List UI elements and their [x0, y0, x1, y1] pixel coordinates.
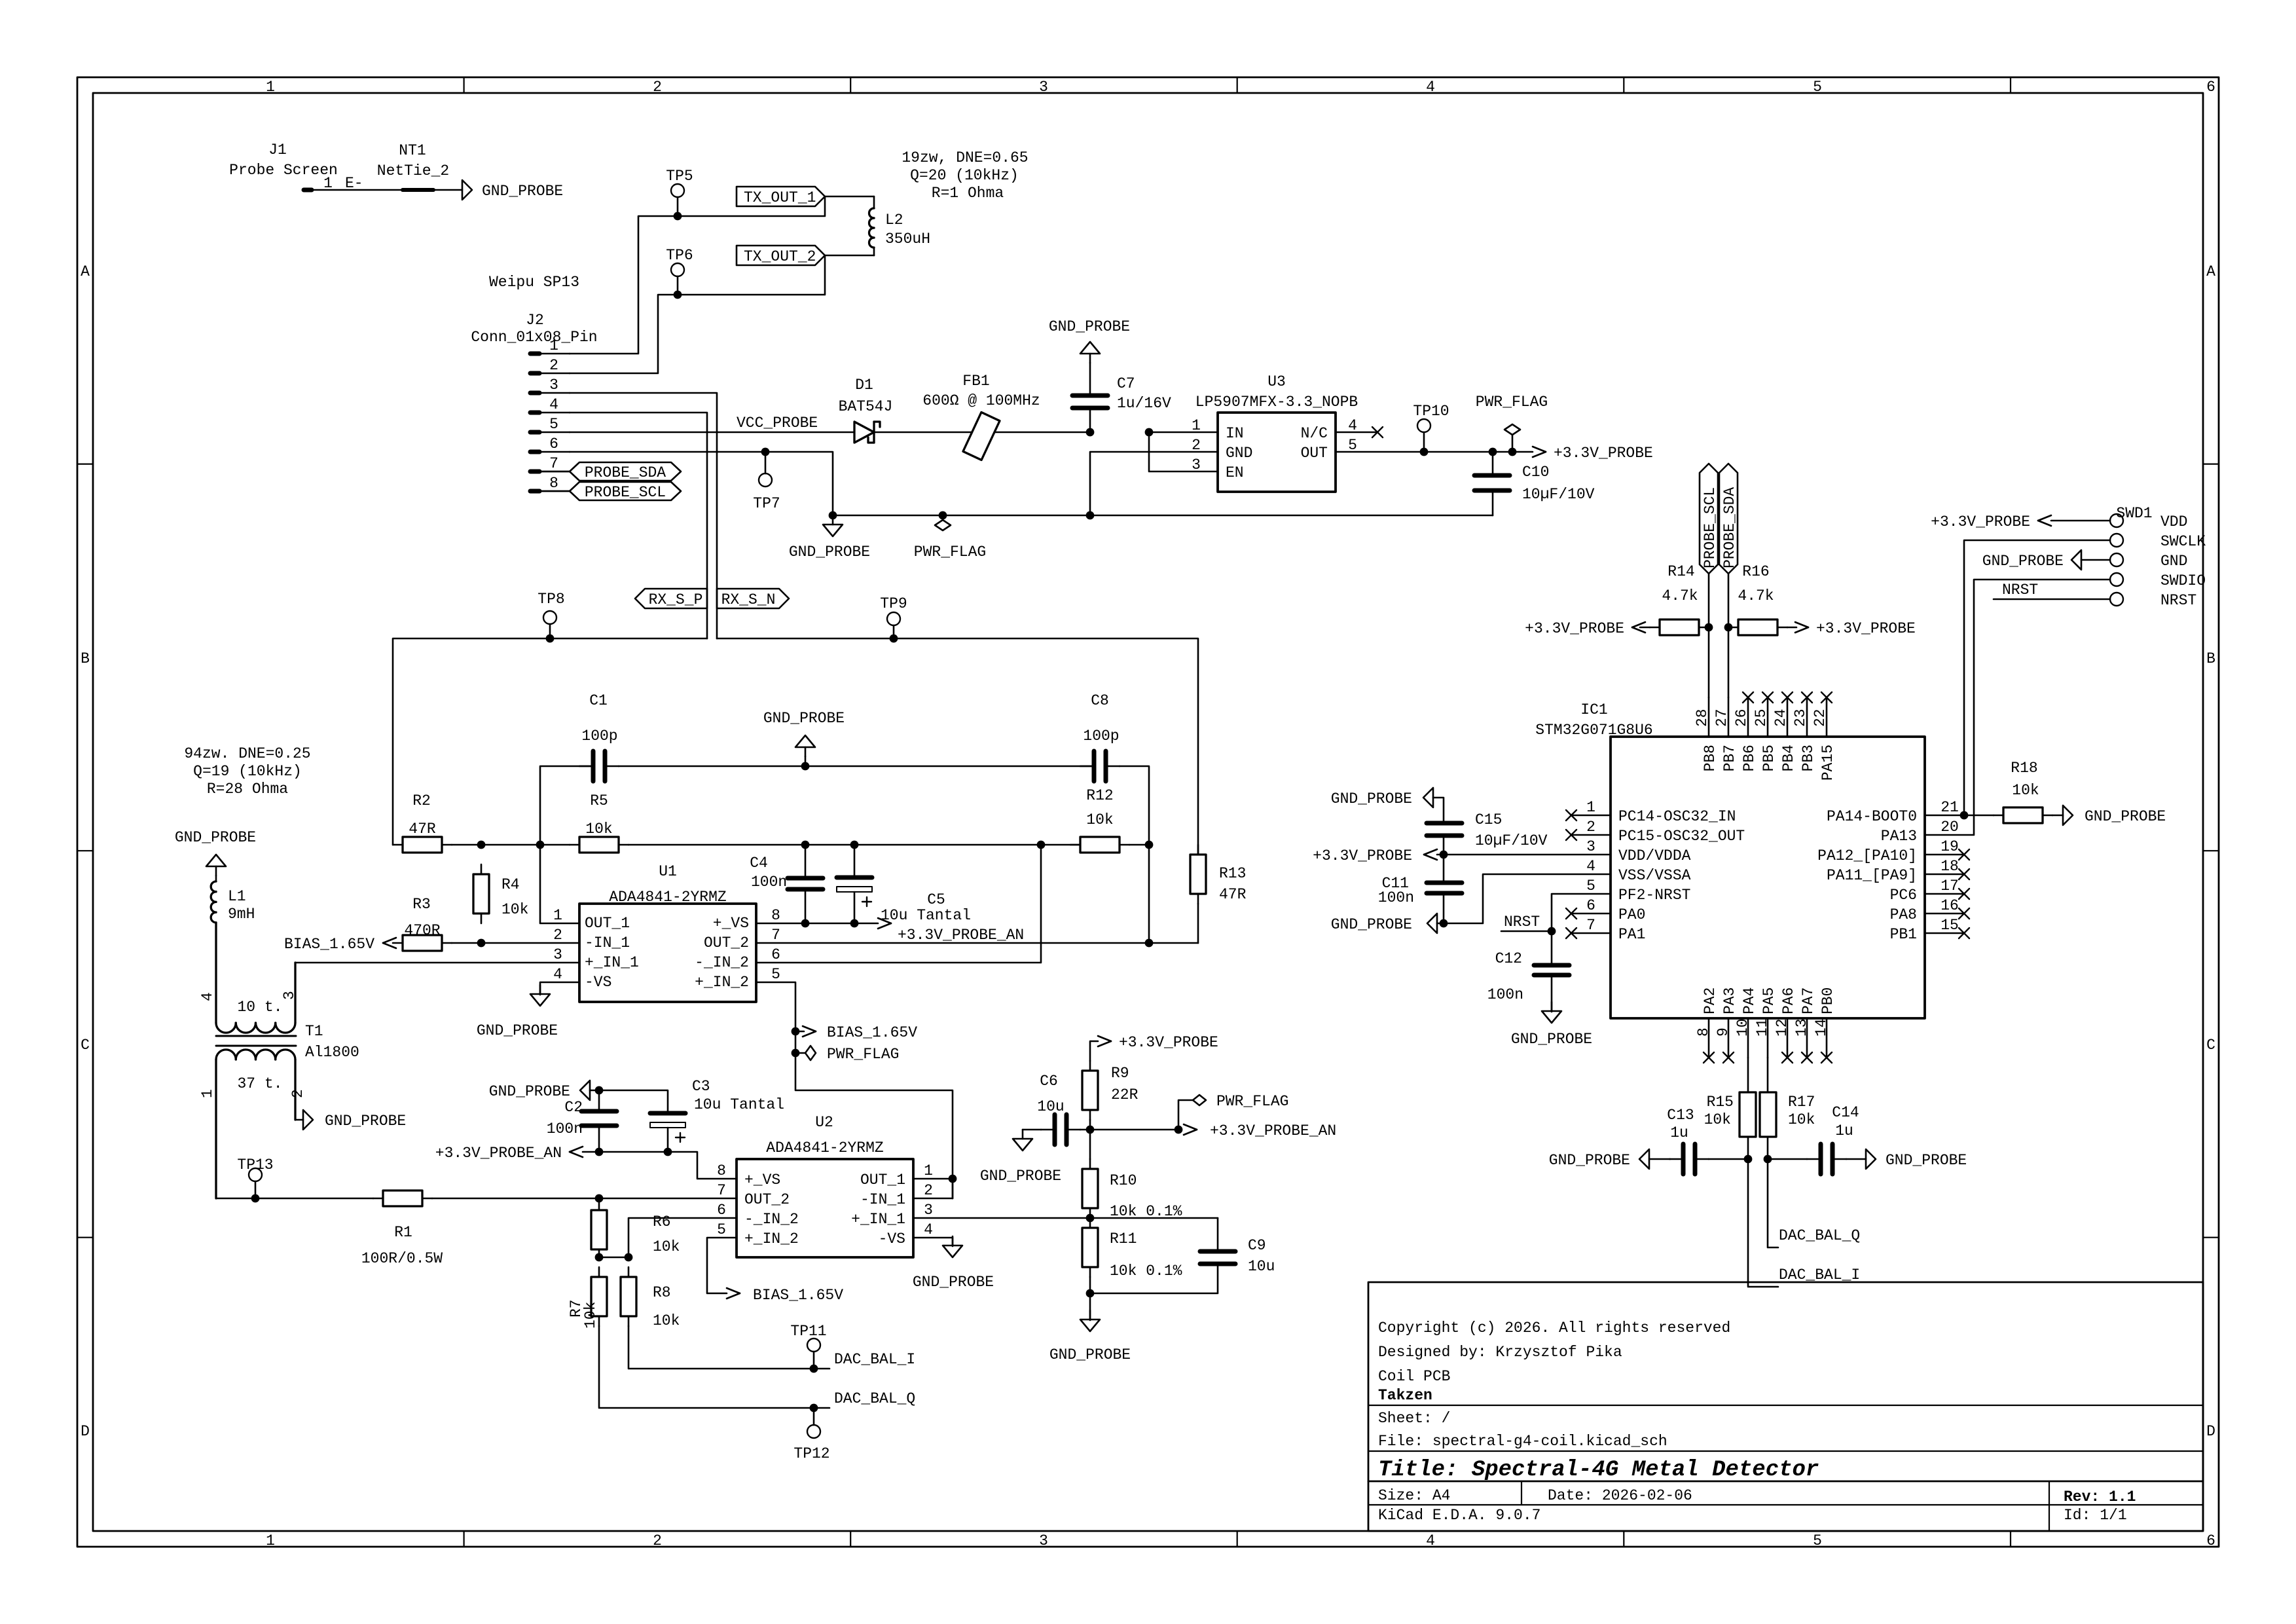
svg-text:1: 1 — [1192, 417, 1201, 434]
svg-text:Title: Spectral-4G Metal Detec: Title: Spectral-4G Metal Detector — [1378, 1458, 1819, 1483]
svg-text:10k: 10k — [1788, 1111, 1815, 1128]
svg-text:100n: 100n — [1487, 986, 1523, 1003]
wire R17 to DAC_BAL_Q — [1768, 1159, 1778, 1247]
svg-text:3: 3 — [924, 1202, 933, 1219]
wire T1 pin1 to R1 — [216, 1198, 373, 1200]
wire GND rail — [833, 515, 1493, 517]
global label RX_S_P — [635, 589, 707, 608]
wire R15 to DAC_BAL_I — [1748, 1159, 1778, 1287]
wire VDD pin3 — [1437, 854, 1611, 856]
ferrite bead FB1 — [922, 373, 1040, 460]
svg-text:6: 6 — [2206, 1532, 2215, 1549]
global label PROBE_SCL — [539, 482, 681, 501]
junction R10 R11 +IN — [1086, 1214, 1095, 1223]
title block text lines — [1378, 1319, 1730, 1450]
svg-text:47R: 47R — [1219, 886, 1247, 903]
svg-text:100n: 100n — [547, 1120, 583, 1137]
power symbol +3.3V_PROBE right of R16 — [1787, 620, 1916, 637]
capacitor C1 100p — [540, 692, 619, 845]
svg-text:R10: R10 — [1110, 1172, 1137, 1189]
svg-text:R12: R12 — [1086, 787, 1113, 804]
svg-text:NRST: NRST — [2160, 592, 2196, 609]
svg-text:R13: R13 — [1219, 865, 1246, 882]
resistor R6 10k — [591, 1200, 680, 1259]
capacitor C8 100p — [1080, 692, 1153, 947]
wire U1 pin3 +_IN_1 from T1 — [295, 962, 579, 964]
svg-text:DAC_BAL_Q: DAC_BAL_Q — [834, 1390, 915, 1407]
no-connect X right pins — [1925, 849, 1969, 938]
svg-text:22R: 22R — [1111, 1086, 1139, 1103]
svg-text:OUT_2: OUT_2 — [704, 934, 749, 951]
svg-text:+3.3V_PROBE_AN: +3.3V_PROBE_AN — [435, 1145, 562, 1162]
svg-text:16: 16 — [1941, 897, 1959, 914]
svg-text:15: 15 — [1941, 917, 1959, 934]
svg-text:PA6: PA6 — [1780, 987, 1797, 1014]
power symbol GND_PROBE rail — [789, 515, 870, 561]
svg-text:L1: L1 — [228, 888, 246, 905]
svg-text:5: 5 — [1813, 1532, 1822, 1549]
resistor R11 10k 0.1% — [1082, 1218, 1182, 1280]
svg-text:+3.3V_PROBE: +3.3V_PROBE — [1119, 1034, 1218, 1051]
svg-text:GND: GND — [2160, 553, 2187, 570]
svg-text:PA14-BOOT0: PA14-BOOT0 — [1827, 808, 1917, 825]
svg-text:100n: 100n — [1378, 889, 1414, 906]
wire U1 pin1 OUT_1 — [540, 845, 579, 923]
svg-text:PA15: PA15 — [1819, 745, 1836, 781]
svg-text:-VS: -VS — [879, 1230, 905, 1247]
svg-text:5: 5 — [717, 1221, 726, 1238]
svg-text:R6: R6 — [653, 1213, 671, 1230]
wire PA13 to SWDIO — [1925, 580, 2110, 835]
wire R8 to DAC_BAL_I — [629, 1326, 829, 1369]
svg-text:Date: 2026-02-06: Date: 2026-02-06 — [1548, 1487, 1692, 1504]
global label GND_PROBE above C15 — [1331, 788, 1444, 823]
svg-text:10k: 10k — [1704, 1111, 1731, 1128]
svg-text:PWR_FLAG: PWR_FLAG — [1216, 1093, 1288, 1110]
svg-text:BIAS_1.65V: BIAS_1.65V — [827, 1024, 917, 1041]
svg-text:10µF/10V: 10µF/10V — [1522, 486, 1595, 503]
svg-text:6: 6 — [549, 435, 558, 452]
junction EN branch — [1145, 428, 1154, 437]
power symbol +3.3V_PROBE_AN left arrow — [435, 1145, 583, 1162]
svg-text:10 t.: 10 t. — [237, 999, 282, 1016]
svg-text:DAC_BAL_I: DAC_BAL_I — [1779, 1266, 1860, 1283]
resistor R12 10k — [1070, 787, 1149, 853]
svg-text:C3: C3 — [692, 1078, 710, 1095]
title block bottom rows — [1378, 1487, 2136, 1524]
power symbol +3.3V_PROBE_AN arrow — [1184, 1122, 1336, 1139]
inductor L1 9mH — [211, 881, 255, 1019]
svg-text:1: 1 — [266, 1532, 275, 1549]
power symbol +3.3V_PROBE_AN right of C5 — [878, 918, 1024, 944]
svg-text:PF2-NRST: PF2-NRST — [1618, 887, 1690, 904]
svg-text:Id: 1/1: Id: 1/1 — [2064, 1507, 2127, 1524]
svg-text:PROBE_SDA: PROBE_SDA — [1721, 487, 1738, 568]
svg-text:TP12: TP12 — [793, 1445, 829, 1462]
power symbol GND_PROBE left of C6 — [980, 1130, 1061, 1185]
svg-text:+_IN_2: +_IN_2 — [744, 1230, 799, 1247]
svg-text:GND_PROBE: GND_PROBE — [1049, 1346, 1131, 1363]
svg-text:17: 17 — [1941, 877, 1959, 895]
svg-text:GND_PROBE: GND_PROBE — [489, 1083, 570, 1100]
svg-text:GND_PROBE: GND_PROBE — [2085, 808, 2166, 825]
svg-text:D: D — [2206, 1423, 2215, 1440]
svg-text:PB1: PB1 — [1890, 926, 1917, 943]
svg-text:24: 24 — [1772, 709, 1789, 727]
resistor R5 10k — [570, 792, 629, 853]
svg-text:GND_PROBE: GND_PROBE — [175, 829, 256, 846]
svg-text:+3.3V_PROBE: +3.3V_PROBE — [1313, 847, 1412, 864]
svg-text:5: 5 — [1813, 79, 1822, 96]
IC1 top pin names — [1702, 745, 1836, 781]
net label DAC_BAL_Q — [834, 1390, 915, 1407]
global label BIAS_1.65V at R3 — [284, 936, 396, 953]
svg-text:25: 25 — [1753, 709, 1770, 727]
svg-text:D1: D1 — [855, 377, 873, 394]
svg-text:C: C — [2206, 1037, 2215, 1054]
no-connect X bottom pins — [1704, 1052, 1832, 1063]
resistor R4 10k — [473, 864, 528, 923]
power symbol GND_PROBE below R11 — [1049, 1293, 1131, 1363]
svg-text:PA4: PA4 — [1741, 987, 1758, 1014]
IC1 top pins and numbers — [1694, 697, 1829, 737]
svg-text:3: 3 — [1039, 79, 1048, 96]
connector SWD1 — [2110, 505, 2206, 609]
regulator U3 LP5907MFX-3.3_NOPB — [1192, 373, 1358, 492]
resistor R7 10k — [568, 1267, 607, 1329]
svg-text:DAC_BAL_I: DAC_BAL_I — [834, 1351, 915, 1368]
svg-text:+3.3V_PROBE_AN: +3.3V_PROBE_AN — [898, 927, 1024, 944]
wire C13 to R15 R17 — [1709, 1155, 1807, 1164]
svg-text:PA13: PA13 — [1881, 828, 1917, 845]
svg-text:TP11: TP11 — [790, 1323, 826, 1340]
svg-text:GND_PROBE: GND_PROBE — [477, 1022, 558, 1039]
wire VSS pin4 — [1444, 874, 1611, 923]
svg-text:9: 9 — [1715, 1027, 1732, 1037]
svg-text:5: 5 — [549, 416, 558, 433]
op-amp U1 ADA4841-2YRMZ — [553, 863, 780, 1002]
svg-text:TP13: TP13 — [237, 1156, 273, 1173]
svg-text:10k: 10k — [501, 901, 528, 918]
svg-text:+3.3V_PROBE: +3.3V_PROBE — [1931, 513, 2030, 530]
svg-text:100n: 100n — [751, 874, 787, 891]
svg-text:VDD: VDD — [2160, 513, 2187, 530]
svg-text:13: 13 — [1793, 1018, 1810, 1037]
svg-text:R=1 Ohma: R=1 Ohma — [932, 185, 1004, 202]
net label NRST at SWD — [1994, 581, 2110, 599]
frame row labels A-D right — [2206, 263, 2215, 1440]
svg-text:IC1: IC1 — [1580, 701, 1607, 718]
capacitor C7 1u/16V — [1072, 363, 1171, 432]
svg-text:PB6: PB6 — [1741, 745, 1758, 771]
svg-text:RX_S_P: RX_S_P — [649, 591, 703, 608]
svg-text:PA11_[PA9]: PA11_[PA9] — [1827, 867, 1917, 884]
wire J2 pin5 VCC_PROBE — [570, 432, 854, 434]
svg-text:PA1: PA1 — [1618, 926, 1645, 943]
power flag PWR_FLAG near R9 — [1178, 1093, 1288, 1130]
svg-text:100R/0.5W: 100R/0.5W — [361, 1250, 443, 1267]
svg-text:4.7k: 4.7k — [1738, 587, 1774, 604]
svg-text:-_IN_2: -_IN_2 — [695, 954, 749, 971]
IC1 right pin names — [1817, 808, 1917, 943]
svg-text:PA0: PA0 — [1618, 906, 1645, 923]
svg-text:1: 1 — [924, 1162, 933, 1179]
svg-text:+_IN_1: +_IN_1 — [851, 1211, 905, 1228]
wire U1 pin8 +VS rail — [756, 923, 878, 925]
svg-text:-IN_1: -IN_1 — [860, 1191, 905, 1208]
svg-text:100p: 100p — [1083, 728, 1119, 745]
svg-text:IN: IN — [1226, 425, 1244, 442]
svg-text:7: 7 — [1586, 917, 1595, 934]
wire R5 to R12 — [629, 844, 1080, 846]
svg-text:+_IN_1: +_IN_1 — [585, 954, 639, 971]
svg-text:OUT_1: OUT_1 — [860, 1172, 905, 1189]
svg-text:19: 19 — [1941, 838, 1959, 855]
resistor R14 4.7k — [1650, 563, 1709, 635]
svg-text:+_VS: +_VS — [713, 915, 749, 932]
svg-text:GND_PROBE: GND_PROBE — [913, 1274, 994, 1291]
wire R7 to DAC_BAL_Q — [599, 1326, 829, 1408]
svg-text:100p: 100p — [581, 728, 617, 745]
svg-text:1u/16V: 1u/16V — [1117, 395, 1171, 412]
resistor R13 47R — [1190, 845, 1247, 943]
wire -IN_1 — [452, 939, 579, 948]
wire RX_S_P — [393, 638, 707, 845]
wire 3.3VAN rail to U2 pin8 — [583, 1152, 737, 1179]
svg-text:1u: 1u — [1835, 1122, 1853, 1139]
net tie NT1 — [345, 142, 462, 192]
diode D1 BAT54J — [839, 377, 893, 443]
svg-text:10u Tantal: 10u Tantal — [881, 907, 971, 924]
svg-text:BIAS_1.65V: BIAS_1.65V — [753, 1287, 843, 1304]
svg-text:PA8: PA8 — [1890, 906, 1917, 923]
resistor R17 10k — [1760, 1058, 1815, 1159]
wire J2 pin1 to TX_OUT_1 — [570, 196, 825, 354]
svg-text:PB3: PB3 — [1800, 745, 1817, 771]
svg-text:PWR_FLAG: PWR_FLAG — [827, 1046, 899, 1063]
wire to 3.3V_PROBE_AN — [1090, 1126, 1182, 1134]
wire PF2-NRST — [1548, 894, 1611, 935]
no-connect X left pins — [1566, 810, 1611, 938]
svg-text:3: 3 — [553, 946, 562, 963]
svg-text:PB4: PB4 — [1780, 745, 1797, 771]
svg-text:Probe Screen: Probe Screen — [229, 162, 338, 179]
svg-text:VDD/VDDA: VDD/VDDA — [1618, 847, 1691, 864]
wire PA14-BOOT0 to R18 — [1925, 811, 1994, 820]
svg-text:T1: T1 — [305, 1023, 323, 1040]
svg-text:2: 2 — [1192, 437, 1201, 454]
junction R6 top — [595, 1194, 604, 1203]
svg-text:OUT_1: OUT_1 — [585, 915, 630, 932]
test point TP7 — [753, 448, 780, 512]
svg-text:PB5: PB5 — [1760, 745, 1777, 771]
svg-text:7: 7 — [717, 1182, 726, 1199]
power symbol GND_PROBE below C12 — [1511, 1002, 1592, 1048]
svg-text:PROBE_SDA: PROBE_SDA — [585, 464, 666, 481]
wire J2 pin2 to TX_OUT_2 — [570, 255, 825, 373]
global label GND_PROBE right of C14 — [1846, 1149, 1967, 1169]
svg-text:22: 22 — [1812, 709, 1829, 727]
svg-text:C: C — [81, 1037, 90, 1054]
test point TP10 — [1413, 403, 1449, 456]
svg-text:NRST: NRST — [2002, 581, 2038, 599]
svg-text:-VS: -VS — [585, 974, 611, 991]
power symbol +3.3V_PROBE left of R14 — [1525, 620, 1650, 637]
svg-text:10k 0.1%: 10k 0.1% — [1110, 1203, 1182, 1220]
svg-text:OUT_2: OUT_2 — [744, 1191, 790, 1208]
net label DAC_BAL_Q at IC — [1779, 1227, 1860, 1244]
capacitor C11 100n — [1378, 855, 1462, 927]
mcu IC1 STM32G071G8U6 — [1535, 701, 1925, 1018]
svg-text:TP9: TP9 — [880, 595, 907, 612]
wire U3 OUT rail — [1336, 451, 1533, 453]
svg-text:U3: U3 — [1267, 373, 1286, 390]
wire U1 pin4 -VS — [540, 982, 579, 995]
svg-text:PC15-OSC32_OUT: PC15-OSC32_OUT — [1618, 828, 1745, 845]
svg-text:10k 0.1%: 10k 0.1% — [1110, 1263, 1182, 1280]
global label TX_OUT_1 — [737, 187, 825, 206]
no-connect X top pins — [1743, 692, 1832, 703]
svg-text:TX_OUT_2: TX_OUT_2 — [744, 248, 816, 265]
wire J2 pin6 to GND rail — [570, 452, 833, 515]
power symbol GND_PROBE above C4 — [763, 710, 845, 770]
svg-text:PWR_FLAG: PWR_FLAG — [1476, 394, 1548, 411]
title block outline — [1368, 1282, 2203, 1531]
svg-text:Takzen: Takzen — [1378, 1387, 1432, 1404]
svg-text:PROBE_SCL: PROBE_SCL — [1702, 487, 1719, 568]
svg-text:47R: 47R — [409, 821, 436, 838]
svg-text:C6: C6 — [1040, 1073, 1058, 1090]
svg-text:10u: 10u — [1248, 1258, 1275, 1275]
capacitor C6 10u — [1037, 1073, 1080, 1145]
svg-text:12: 12 — [1774, 1018, 1791, 1037]
svg-text:C5: C5 — [927, 891, 945, 908]
test point TP6 — [666, 247, 693, 295]
svg-text:23: 23 — [1792, 709, 1809, 727]
svg-text:R9: R9 — [1111, 1065, 1129, 1082]
svg-text:10k: 10k — [582, 1302, 599, 1329]
svg-text:26: 26 — [1733, 709, 1750, 727]
svg-text:+_IN_2: +_IN_2 — [695, 974, 749, 991]
svg-text:PA2: PA2 — [1702, 987, 1719, 1014]
svg-text:7: 7 — [549, 455, 558, 472]
svg-text:Copyright (c) 2026. All rights: Copyright (c) 2026. All rights reserved — [1378, 1319, 1730, 1337]
transformer T1 Al1800 — [199, 923, 359, 1198]
svg-text:SWDIO: SWDIO — [2160, 572, 2206, 589]
global label GND_PROBE below C11 — [1331, 913, 1444, 933]
svg-text:PROBE_SCL: PROBE_SCL — [585, 484, 666, 501]
svg-text:SWCLK: SWCLK — [2160, 533, 2206, 550]
svg-text:File: spectral-g4-coil.kicad_s: File: spectral-g4-coil.kicad_sch — [1378, 1433, 1667, 1450]
svg-text:5: 5 — [1586, 877, 1595, 895]
svg-text:C13: C13 — [1667, 1107, 1694, 1124]
global label BIAS_1.65V at U2 — [727, 1287, 843, 1304]
svg-text:4: 4 — [1586, 858, 1595, 875]
wire U1 pin6 -_IN_2 — [756, 841, 1045, 963]
svg-text:KiCad E.D.A. 9.0.7: KiCad E.D.A. 9.0.7 — [1378, 1507, 1540, 1524]
svg-text:A: A — [2206, 263, 2215, 280]
svg-text:C15: C15 — [1475, 811, 1502, 828]
svg-text:4: 4 — [1426, 1532, 1435, 1549]
svg-text:3: 3 — [1192, 456, 1201, 473]
svg-text:VCC_PROBE: VCC_PROBE — [737, 415, 818, 432]
svg-text:R1: R1 — [394, 1224, 412, 1241]
svg-text:Q=19 (10kHz): Q=19 (10kHz) — [193, 763, 302, 780]
wire U2 pin4 -VS gnd — [913, 1236, 994, 1291]
svg-text:4: 4 — [199, 992, 216, 1001]
resistor R1 100R/0.5W — [361, 1190, 443, 1267]
svg-text:-_IN_2: -_IN_2 — [744, 1211, 799, 1228]
svg-text:Designed by: Krzysztof Pika: Designed by: Krzysztof Pika — [1378, 1344, 1622, 1361]
svg-text:Conn_01x08_Pin: Conn_01x08_Pin — [471, 329, 597, 346]
svg-text:600Ω @ 100MHz: 600Ω @ 100MHz — [922, 392, 1040, 409]
resistor R10 10k 0.1% — [1082, 1130, 1182, 1220]
svg-text:R5: R5 — [590, 792, 608, 809]
global label PROBE_SDA vertical — [1719, 464, 1738, 574]
svg-text:4: 4 — [924, 1221, 933, 1238]
svg-text:GND_PROBE: GND_PROBE — [763, 710, 845, 727]
svg-text:10u Tantal: 10u Tantal — [694, 1096, 784, 1113]
svg-text:GND_PROBE: GND_PROBE — [980, 1168, 1061, 1185]
svg-text:10k: 10k — [653, 1312, 680, 1329]
svg-text:L2: L2 — [885, 212, 903, 229]
resistor R15 10k — [1704, 1058, 1756, 1159]
svg-text:BIAS_1.65V: BIAS_1.65V — [284, 936, 374, 953]
svg-text:8: 8 — [771, 907, 780, 924]
wire R1 to U2 OUT_2 — [432, 1198, 737, 1200]
svg-text:J2: J2 — [526, 312, 544, 329]
power flag PWR_FLAG at 3.3V rail — [1476, 394, 1548, 456]
junction TP5 wire — [674, 212, 682, 221]
resistor R3 470R — [393, 896, 452, 951]
resistor R16 4.7k — [1728, 563, 1787, 635]
svg-text:TX_OUT_1: TX_OUT_1 — [744, 189, 816, 206]
svg-text:R18: R18 — [2011, 760, 2037, 777]
capacitor C9 10u — [1090, 1218, 1275, 1293]
wire PROBE_SDA to pin27 — [1724, 574, 1733, 697]
note text 94zw DNE — [184, 745, 310, 798]
wire U2 pin6 to R6 R8 — [629, 1218, 737, 1257]
net label DAC_BAL_I — [834, 1351, 915, 1368]
test point TP9 — [880, 595, 907, 642]
title text — [1378, 1458, 1819, 1483]
svg-text:Al1800: Al1800 — [305, 1044, 359, 1061]
wire D1 to FB1 to C7 — [874, 432, 1090, 434]
svg-text:B: B — [2206, 650, 2215, 667]
svg-text:28: 28 — [1694, 709, 1711, 727]
svg-text:20: 20 — [1941, 819, 1959, 836]
svg-text:1u: 1u — [1670, 1124, 1688, 1141]
svg-text:GND_PROBE: GND_PROBE — [1886, 1152, 1967, 1169]
svg-text:Size: A4: Size: A4 — [1378, 1487, 1450, 1504]
IC1 bottom pins and numbers — [1695, 1018, 1830, 1058]
svg-text:TP6: TP6 — [666, 247, 693, 264]
svg-text:TP10: TP10 — [1413, 403, 1449, 420]
svg-text:GND_PROBE: GND_PROBE — [1549, 1152, 1630, 1169]
global label GND_PROBE at T1 pin2 — [295, 1110, 406, 1130]
svg-text:+3.3V_PROBE: +3.3V_PROBE — [1816, 620, 1916, 637]
svg-text:LP5907MFX-3.3_NOPB: LP5907MFX-3.3_NOPB — [1195, 394, 1358, 411]
svg-text:ADA4841-2YRMZ: ADA4841-2YRMZ — [766, 1139, 883, 1156]
svg-text:RX_S_N: RX_S_N — [721, 591, 776, 608]
svg-text:R11: R11 — [1110, 1230, 1137, 1247]
wire J2 pin3 riser — [570, 393, 717, 638]
resistor R2 47R — [393, 792, 452, 853]
svg-text:10: 10 — [1734, 1018, 1751, 1037]
note text 19zw DNE — [902, 149, 1028, 202]
svg-text:1: 1 — [1586, 799, 1595, 816]
svg-text:PC14-OSC32_IN: PC14-OSC32_IN — [1618, 808, 1736, 825]
